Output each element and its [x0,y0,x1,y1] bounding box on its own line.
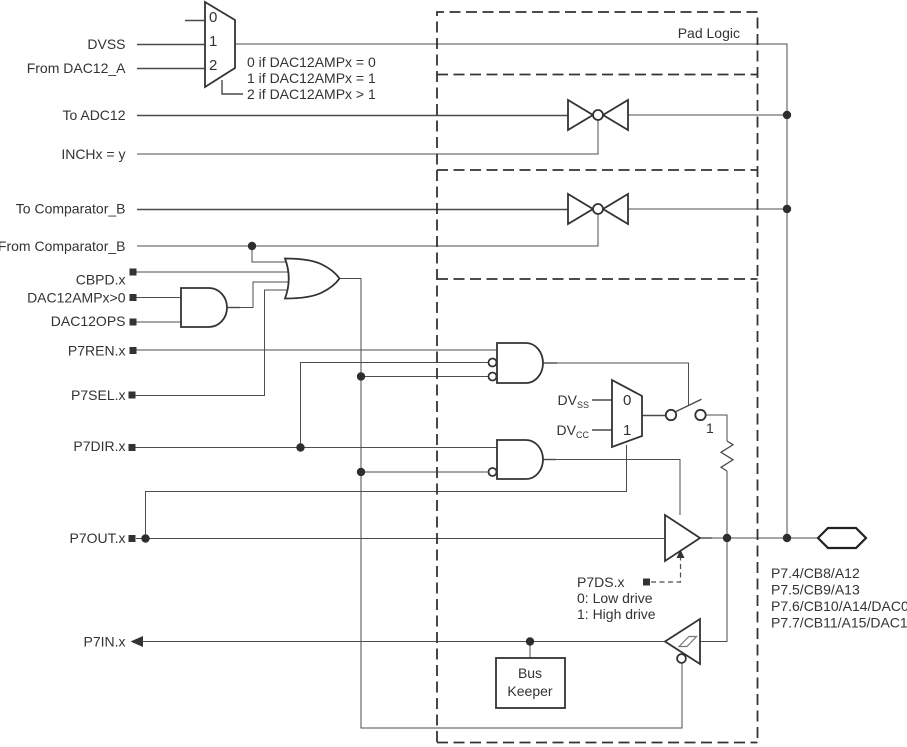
square pad P7REN.x [130,347,137,354]
svg-text:0 if DAC12AMPx = 0: 0 if DAC12AMPx = 0 [247,54,376,70]
square pad CBPD.x [130,269,137,276]
square pad P7DIR.x [129,444,136,451]
wire DAC12OPS [136,321,181,323]
wire From Comparator_B [137,214,598,246]
junction pad vertical [783,534,791,542]
wire driver output to pad [710,537,818,539]
square pad DAC12OPS [130,319,137,326]
P7DS.x square pad [643,579,650,586]
wire TG1 output [628,114,787,116]
wire P7DIR.x to AND3 [135,447,497,449]
wire P7DIR branch to AND2 bubble input [301,363,489,448]
wire mux1 output net to pad verticals [235,44,787,538]
junction From Comparator_B [248,242,256,250]
wire P7REN.x [136,349,497,351]
svg-text:P7REN.x: P7REN.x [68,343,126,359]
wire bus keeper [529,642,531,659]
wire AND1 output to OR input [238,282,298,308]
AND gate U4 (REN control, 3-input) [489,343,544,383]
svg-text:Bus: Bus [518,665,542,681]
switch S1 [666,399,706,420]
svg-text:INCHx = y: INCHx = y [61,146,125,162]
svg-text:P7.6/CB10/A14/DAC0: P7.6/CB10/A14/DAC0 [771,598,907,614]
pad hexagon P7.x [818,528,866,548]
wire pad to input buffer [700,538,727,642]
wire DVcc stub [592,429,612,431]
wire From DAC12_A to mux1 [137,68,205,70]
junction TG2 output [783,205,791,213]
svg-text:DAC12AMPx>0: DAC12AMPx>0 [27,290,126,306]
P7IN.x arrow [131,636,144,647]
svg-text:To Comparator_B: To Comparator_B [16,201,126,217]
svg-text:1 if DAC12AMPx = 1: 1 if DAC12AMPx = 1 [247,70,376,86]
output driver U7 [665,515,700,561]
wire To ADC12 [137,115,568,117]
wire From Comparator_B branch to OR input [252,246,298,262]
svg-text:Pad Logic: Pad Logic [678,25,740,41]
wire DAC12AMPx>0 [136,297,181,299]
junction OR to U5 [357,468,365,476]
junction resistor pad [723,534,731,542]
svg-text:P7SEL.x: P7SEL.x [71,387,125,403]
pad logic section divider 1 [437,74,758,76]
svg-text:DVCC: DVCC [557,422,590,440]
wire To Comparator_B [137,209,568,211]
svg-text:P7IN.x: P7IN.x [83,634,125,650]
junction bus keeper [526,637,534,645]
pad logic dashed box [437,12,758,742]
square pad P7OUT.x [129,535,136,542]
wire switch to resistor [706,415,728,441]
bus keeper U9 [496,658,565,708]
svg-text:DVSS: DVSS [558,392,589,410]
svg-text:P7.4/CB8/A12: P7.4/CB8/A12 [771,565,860,581]
pad logic section divider 3 [437,278,758,280]
svg-text:P7.7/CB11/A15/DAC1: P7.7/CB11/A15/DAC1 [771,615,907,631]
transmission gate T2 (To Comparator_B) [568,194,628,224]
pad logic section divider 2 [437,169,758,171]
svg-text:From DAC12_A: From DAC12_A [27,60,126,76]
transmission gate T1 (To ADC12) [568,100,628,130]
mux U1 [205,2,235,87]
svg-text:1: 1 [209,33,217,50]
OR gate U3 [285,259,340,299]
pad logic inner bottom edge [437,742,758,744]
junction TG1 output [783,111,791,119]
wire P7OUT.x to driver [136,538,665,540]
svg-text:Keeper: Keeper [507,683,552,699]
svg-text:P7DS.x: P7DS.x [577,574,624,590]
wire CBPD.x [136,271,298,273]
svg-text:P7.5/CB9/A13: P7.5/CB9/A13 [771,582,860,598]
wire TG2 output [628,208,787,210]
wire INCHx = y [137,120,598,154]
P7DS.x drive strength dashed control [651,557,681,582]
wire P7SEL.x to OR input [135,290,298,396]
wire mux2 output to switch [642,415,666,417]
wire P7IN.x [133,641,665,643]
wire AND2 output to switch control [555,363,689,406]
svg-text:2 if DAC12AMPx > 1: 2 if DAC12AMPx > 1 [247,86,376,102]
wire DVSS to mux1 [137,44,205,46]
junction OR to U4 [357,372,365,380]
wire OR branch to AND2 bubble input [361,376,488,378]
svg-text:DVSS: DVSS [87,36,125,52]
svg-text:2: 2 [209,57,217,74]
AND gate U2 (DAC12 enable) [181,288,227,327]
AND gate U5 (output enable) [489,440,544,479]
svg-text:0: 0 [209,9,217,26]
wire P7OUT branch to mux2 select [146,445,627,539]
wire OR branch to AND3 bubble input [361,471,488,473]
svg-text:0: 0 [623,392,631,409]
junction P7DIR [296,443,304,451]
resistor R1 [721,441,733,471]
wire AND3 output to driver enable [554,460,680,516]
square pad P7SEL.x [129,392,136,399]
svg-text:To ADC12: To ADC12 [62,107,125,123]
svg-text:1: 1 [706,420,714,436]
wire OR output down to input buffer enable [339,279,682,729]
svg-text:DAC12OPS: DAC12OPS [51,313,126,329]
wire resistor to pad [726,471,728,538]
wire mux1 input 0 stub [185,20,205,22]
input buffer U8 (Schmitt) [665,619,700,664]
mux U6 (DVss/DVcc) [612,380,642,447]
svg-text:0: Low drive: 0: Low drive [577,590,653,606]
svg-text:CBPD.x: CBPD.x [76,272,126,288]
wire mux1 select annotation [222,80,243,94]
svg-text:P7OUT.x: P7OUT.x [69,530,125,546]
junction P7OUT select [141,534,149,542]
square pad DAC12AMPx>0 [130,294,137,301]
wire DVss stub [592,399,612,401]
svg-text:P7DIR.x: P7DIR.x [73,438,125,454]
svg-text:1: High drive: 1: High drive [577,606,656,622]
svg-text:From Comparator_B: From Comparator_B [0,238,126,254]
svg-text:1: 1 [623,422,631,439]
